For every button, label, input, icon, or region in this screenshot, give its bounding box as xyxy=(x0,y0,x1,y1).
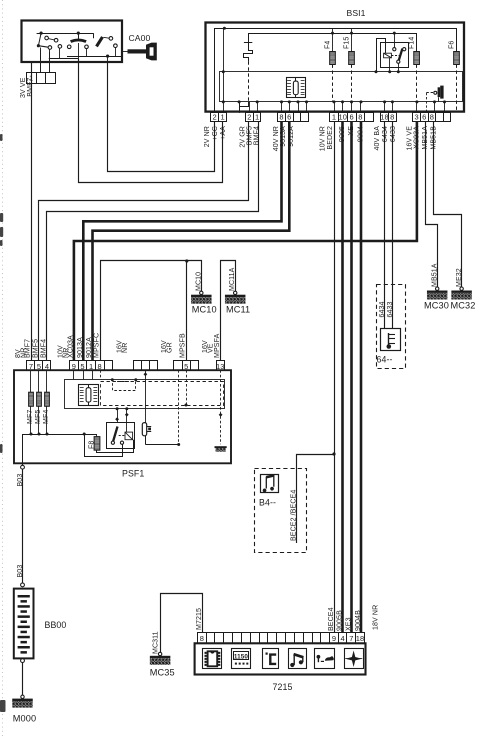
switch S2 contacts xyxy=(77,31,80,34)
wire MB51B / ME32 xyxy=(434,121,462,287)
icon: C (tape) xyxy=(263,649,279,669)
svg-text:M7215: M7215 xyxy=(196,608,203,630)
svg-text:BECE2 /BECE4: BECE2 /BECE4 xyxy=(290,490,297,541)
svg-text:10V NR: 10V NR xyxy=(320,126,327,151)
CA00 connector pins xyxy=(27,73,37,84)
dashed option region xyxy=(101,382,224,406)
svg-text:18: 18 xyxy=(356,634,365,643)
svg-text:9: 9 xyxy=(332,634,336,643)
svg-text:6434: 6434 xyxy=(379,301,386,317)
P5F1 connector symbol xyxy=(79,385,99,406)
svg-text:BSI1: BSI1 xyxy=(347,8,366,18)
wire 16V NR feed xyxy=(145,370,147,422)
component B4-- (dashed) xyxy=(255,469,307,553)
svg-text:BMF4: BMF4 xyxy=(253,126,260,145)
svg-text:BMF4: BMF4 xyxy=(41,339,48,358)
P5F1 supply bus xyxy=(23,435,98,464)
svg-text:9004B: 9004B xyxy=(355,610,362,631)
svg-text:1: 1 xyxy=(255,113,259,122)
svg-text:7215: 7215 xyxy=(273,682,293,692)
ground MC30 xyxy=(436,287,439,290)
svg-text:2: 2 xyxy=(247,113,251,122)
wire 9004 / 9004B xyxy=(360,121,363,633)
svg-text:18: 18 xyxy=(380,113,389,122)
svg-text:6: 6 xyxy=(287,113,291,122)
svg-text:9012A: 9012A xyxy=(86,337,93,358)
svg-text:7: 7 xyxy=(29,362,33,371)
7215 body xyxy=(195,643,366,674)
svg-text:ME32: ME32 xyxy=(456,268,463,287)
svg-text:MF7: MF7 xyxy=(27,410,34,424)
svg-text:2V NR: 2V NR xyxy=(204,126,211,147)
svg-text:MPSFC: MPSFC xyxy=(94,333,101,358)
svg-text:4: 4 xyxy=(341,634,345,643)
svg-text:8: 8 xyxy=(390,113,394,122)
svg-text:F4: F4 xyxy=(325,41,332,49)
svg-text:BB00: BB00 xyxy=(45,620,67,630)
icon: nav star xyxy=(345,649,364,669)
dashed fuse outputs xyxy=(332,65,334,102)
svg-text:B4--: B4-- xyxy=(259,498,276,508)
svg-text:6: 6 xyxy=(422,113,426,122)
svg-text:6434: 6434 xyxy=(382,126,389,142)
svg-text:MPSFB: MPSFB xyxy=(180,333,187,358)
svg-text:XE3: XE3 xyxy=(346,617,353,631)
svg-text:40V BA: 40V BA xyxy=(374,126,381,151)
internal chassis ground xyxy=(215,446,227,448)
svg-text:MB51A: MB51A xyxy=(431,263,438,287)
wire BMF4 xyxy=(47,121,259,361)
wire BMF7 xyxy=(31,62,33,361)
P5F1 pin row xyxy=(27,361,35,371)
7215 pin row xyxy=(198,633,207,644)
switch S1 contacts xyxy=(37,33,94,35)
svg-text:13: 13 xyxy=(216,362,225,371)
CA00 inner rails xyxy=(67,56,122,58)
svg-text:9005B: 9005B xyxy=(337,610,344,631)
wire 6434 xyxy=(384,121,386,329)
switch S3 contacts xyxy=(97,37,103,47)
shunt link symbol xyxy=(244,33,253,61)
wire 9013A xyxy=(83,121,281,361)
wire MP5FA / MC11A xyxy=(221,261,236,361)
fuse F4 xyxy=(332,28,334,51)
svg-text:BECE4: BECE4 xyxy=(328,607,335,631)
P5F1 inner connector frame xyxy=(65,380,225,409)
svg-text:1: 1 xyxy=(332,113,336,122)
BSI small sensor component xyxy=(438,87,441,97)
svg-text:MC35: MC35 xyxy=(150,668,175,678)
svg-text:GR: GR xyxy=(166,342,173,353)
wire XC03A xyxy=(74,121,417,361)
svg-text:6433: 6433 xyxy=(387,301,394,317)
wire MP5FC xyxy=(101,261,202,361)
wire B03 xyxy=(22,463,24,583)
svg-text:8: 8 xyxy=(279,113,283,122)
svg-text:2: 2 xyxy=(212,113,216,122)
svg-text:MC10: MC10 xyxy=(192,305,217,315)
BSI pin row xyxy=(211,113,219,122)
component 64-- (clock) xyxy=(377,285,406,369)
svg-text:1: 1 xyxy=(89,362,93,371)
svg-text:MF5: MF5 xyxy=(35,410,42,424)
svg-text:+AA: +AA xyxy=(220,126,227,140)
BSI inner feed rail A xyxy=(215,29,457,113)
wire 6433 xyxy=(392,121,394,329)
svg-text:MC32: MC32 xyxy=(451,301,476,311)
ground M000 xyxy=(21,695,24,698)
ground MC11 xyxy=(234,291,237,294)
P5F1 body xyxy=(14,370,231,463)
svg-text:3: 3 xyxy=(415,113,419,122)
wire +CC xyxy=(108,62,215,172)
svg-text:BMF7: BMF7 xyxy=(25,339,32,358)
key icon xyxy=(122,51,128,53)
wire XE / XE3 xyxy=(350,121,353,633)
svg-text:1: 1 xyxy=(220,113,224,122)
svg-text:3V VE: 3V VE xyxy=(20,77,27,98)
BSI lower compartment xyxy=(220,72,463,102)
wires from pins 9 5 1 8 into connector xyxy=(73,370,75,379)
svg-text:M000: M000 xyxy=(13,714,36,724)
svg-text:BMF5: BMF5 xyxy=(246,126,253,145)
ground MC10 xyxy=(200,291,203,294)
svg-text:8: 8 xyxy=(358,113,362,122)
fuse F6 xyxy=(454,52,460,65)
wire to ground xyxy=(22,662,24,695)
icon: chip xyxy=(203,649,222,669)
relay box xyxy=(107,423,135,449)
svg-text:5: 5 xyxy=(37,362,41,371)
svg-text:9: 9 xyxy=(72,362,76,371)
wire BEDE2 / BECE4 xyxy=(334,121,336,633)
svg-text:5: 5 xyxy=(184,362,188,371)
dashed MP5FA internal xyxy=(220,370,222,444)
svg-text:BMF5: BMF5 xyxy=(33,339,40,358)
page margin artifacts xyxy=(2,0,4,737)
svg-text:F14: F14 xyxy=(409,37,416,49)
svg-text:CA00: CA00 xyxy=(129,33,151,43)
svg-text:18V NR: 18V NR xyxy=(373,605,380,630)
wire shunt to pin (dashed) xyxy=(248,61,250,102)
fuse F15 xyxy=(351,28,353,51)
svg-text:8: 8 xyxy=(200,634,204,643)
music note icon xyxy=(263,487,274,492)
BSI pin stub wires xyxy=(239,102,241,113)
ground MC35 xyxy=(158,652,161,655)
svg-text:BMF7: BMF7 xyxy=(27,78,34,97)
svg-text:5: 5 xyxy=(80,362,84,371)
wire M7215 xyxy=(161,594,203,653)
svg-text:PSF1: PSF1 xyxy=(122,469,144,479)
ignition switch CA00 xyxy=(22,21,123,63)
wire +AA inner xyxy=(223,28,225,113)
svg-text:1150: 1150 xyxy=(234,653,248,660)
node MP5FB junction xyxy=(185,259,188,262)
BSI1 body xyxy=(206,23,465,112)
node +AA tap xyxy=(223,27,226,30)
P5F1 fuses MF7 MF5 MF4 xyxy=(30,370,32,392)
wire 9005 / 9005B xyxy=(341,121,344,633)
wire BMF5 xyxy=(39,121,249,361)
svg-text:XC03A: XC03A xyxy=(68,335,75,358)
thermometer icon xyxy=(388,333,390,347)
wire BECE2/BECE4 branch xyxy=(297,455,335,544)
svg-text:F15: F15 xyxy=(344,37,351,49)
wire to dashed node xyxy=(145,436,147,445)
svg-text:8: 8 xyxy=(98,362,102,371)
svg-text:MF4: MF4 xyxy=(43,410,50,424)
svg-text:10: 10 xyxy=(339,113,348,122)
svg-text:MC10: MC10 xyxy=(196,272,203,291)
svg-text:MC11: MC11 xyxy=(226,305,250,315)
icon: car/key xyxy=(315,649,335,669)
svg-text:F6: F6 xyxy=(449,41,456,49)
svg-text:40V NR: 40V NR xyxy=(273,126,280,151)
svg-text:9013A: 9013A xyxy=(77,337,84,358)
svg-text:7: 7 xyxy=(349,634,353,643)
fuse F14 xyxy=(414,52,420,65)
buzzer symbol xyxy=(142,423,146,436)
wire MB51A xyxy=(426,121,438,287)
relay feed wires xyxy=(116,407,119,410)
battery BB00 xyxy=(14,589,34,659)
svg-text:MC11A: MC11A xyxy=(229,267,236,291)
node BECE2 branch xyxy=(332,452,335,455)
wire +AA xyxy=(79,59,223,183)
icon: note xyxy=(289,649,307,669)
svg-text:MC30: MC30 xyxy=(424,301,449,311)
svg-text:MPSFA: MPSFA xyxy=(214,333,221,358)
svg-text:+CC: +CC xyxy=(212,126,219,141)
svg-text:NR: NR xyxy=(122,343,129,353)
ground MC32 xyxy=(460,287,463,290)
fuse F8 xyxy=(96,434,98,437)
svg-text:6433: 6433 xyxy=(390,126,397,142)
wire MP5FB xyxy=(186,261,188,361)
BSI mid connector symbol xyxy=(287,78,306,98)
svg-text:BEDE2: BEDE2 xyxy=(327,126,334,150)
icon: display xyxy=(232,649,251,669)
svg-text:4: 4 xyxy=(45,362,49,371)
svg-text:B03: B03 xyxy=(17,474,24,487)
svg-text:8: 8 xyxy=(430,113,434,122)
small dashed option box xyxy=(113,382,136,391)
svg-text:MC311: MC311 xyxy=(153,631,160,654)
svg-text:6: 6 xyxy=(349,113,353,122)
relay K in BSI xyxy=(381,43,409,68)
dashed pin links xyxy=(178,370,180,444)
svg-text:F8: F8 xyxy=(88,441,95,449)
BSI inner feed rail B xyxy=(248,34,416,52)
svg-text:B03: B03 xyxy=(17,565,24,578)
svg-text:64--: 64-- xyxy=(377,355,393,365)
wire 9012A xyxy=(93,121,290,361)
